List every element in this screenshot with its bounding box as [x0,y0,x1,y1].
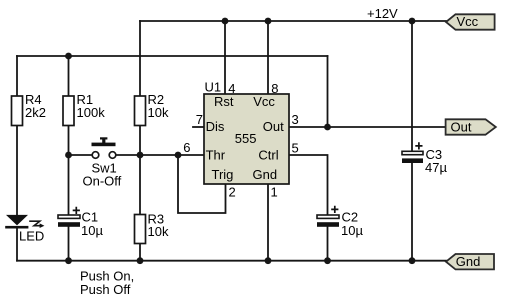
svg-text:Gnd: Gnd [456,254,481,269]
svg-text:Out: Out [451,120,472,135]
svg-text:4: 4 [228,81,235,96]
svg-text:Gnd: Gnd [253,167,278,182]
node ground pin1 [265,257,272,264]
svg-text:Trig: Trig [212,167,234,182]
svg-text:2: 2 [229,185,236,200]
capacitor C1 [58,207,103,238]
node ground R3 [137,257,144,264]
svg-text:Push Off: Push Off [80,282,131,297]
pin 1 label [271,185,278,200]
pin 8 label [271,81,278,96]
wire Trig loop [178,155,226,213]
wire feedback rail [17,55,328,57]
Out tag [446,119,496,134]
capacitor C3 [402,142,447,175]
svg-text:100k: 100k [77,105,106,120]
node top rail pin8 [265,18,272,25]
node ground C2 [324,257,331,264]
svg-text:Vcc: Vcc [253,94,275,109]
node switch row R1 [65,152,72,159]
svg-text:1: 1 [271,185,278,200]
resistor R4 [12,92,46,125]
svg-text:On-Off: On-Off [83,173,122,188]
svg-text:5: 5 [292,140,299,155]
wire pin 8 to rail [267,21,269,94]
wire C1 to ground [68,227,70,261]
svg-text:Thr: Thr [206,147,226,162]
wire +12V top rail [140,20,446,22]
op-amp U1 555 IC body [204,94,289,184]
svg-text:10k: 10k [148,105,169,120]
pin 4 label [228,81,235,96]
Gnd tag [446,254,494,269]
wire Out pin 3 [289,126,446,128]
wire feedback drop to Out [327,56,329,127]
LED [5,215,44,244]
node switch row Thr [175,152,182,159]
wire R1 top [68,56,70,97]
resistor R2 [135,92,169,125]
pin 2 label [229,185,236,200]
capacitor C2 [317,206,363,238]
resistor R3 [135,211,169,243]
node top rail pin4 [222,18,229,25]
wire ground rail [17,260,446,262]
wire Ctrl pin 5 to C2 [289,155,328,215]
pin 7 label [196,112,203,127]
svg-text:47µ: 47µ [425,160,447,175]
node Out feedback [324,124,331,131]
wire C3 column upper [411,21,413,151]
resistor R1 [63,92,105,125]
node feedback R1 [65,53,72,60]
+12V label [367,6,398,21]
node ground C3 [409,257,416,264]
wire switch to Thr pin 6 [117,154,205,156]
node switch row R2 [137,152,144,159]
wire R4 to LED [16,126,18,216]
svg-text:Dis: Dis [206,119,225,134]
svg-text:2k2: 2k2 [25,105,46,120]
svg-text:3: 3 [292,112,299,127]
node top rail C3 [409,18,416,25]
svg-text:10k: 10k [148,224,169,239]
wire pin 4 to rail [224,21,226,94]
svg-text:Out: Out [263,119,284,134]
wire R3 to ground [139,244,141,261]
svg-text:7: 7 [196,112,203,127]
wire C3 column lower [411,163,413,261]
pin 3 label [292,112,299,127]
IC reference U1 [205,79,222,94]
svg-text:555: 555 [235,131,257,146]
note Push On Push Off [80,268,134,296]
svg-text:6: 6 [183,140,190,155]
pin 5 label [292,140,299,155]
svg-text:Rst: Rst [214,94,234,109]
wire Dis pin 7 stub [193,126,204,128]
svg-text:10µ: 10µ [81,223,103,238]
wire R1 bottom to switch row [68,126,70,156]
wire R2 top drop [139,21,141,97]
svg-text:8: 8 [271,81,278,96]
node ground C1 [65,257,72,264]
svg-text:Ctrl: Ctrl [258,147,278,162]
svg-text:Vcc: Vcc [457,14,479,29]
pin 6 label [183,140,190,155]
wire pin 1 to ground [267,184,269,261]
wire LED to ground [16,228,18,261]
svg-text:U1: U1 [205,79,222,94]
svg-text:LED: LED [19,229,44,244]
wire R2 bottom to R3 [139,126,141,215]
svg-text:+12V: +12V [367,6,398,21]
switch Sw1 [83,137,122,188]
wire switch left contact [69,154,92,156]
wire C2 to ground [327,227,329,261]
svg-text:10µ: 10µ [341,223,363,238]
wire R4 top [16,56,18,96]
Vcc supply tag [446,14,495,30]
wire switch row to C1 [68,155,70,215]
